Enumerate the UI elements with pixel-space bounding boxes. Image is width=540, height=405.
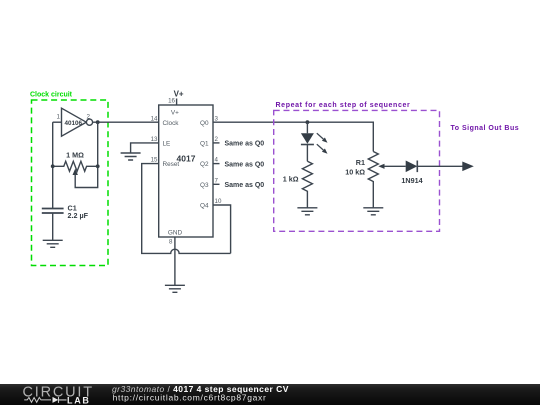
svg-text:8: 8 — [169, 239, 173, 246]
svg-text:V+: V+ — [171, 110, 179, 117]
wire: GND pin to ground — [174, 237, 176, 285]
wiper arrow of R1 — [378, 164, 384, 169]
wire: Q0 output net — [213, 122, 373, 151]
annotation box "Repeat for each step of sequencer" — [274, 102, 440, 231]
diode 1N914 — [401, 161, 422, 186]
svg-text:Reset: Reset — [163, 161, 180, 168]
svg-text:4017: 4017 — [177, 154, 196, 164]
wire: C1 to ground — [52, 213, 54, 240]
node: resistor right junction — [96, 164, 100, 168]
ground (below R1) — [363, 208, 383, 215]
svg-text:Q4: Q4 — [200, 203, 209, 210]
wire: Reset loop to Q4 with hop over GND wire — [142, 164, 231, 254]
svg-text:10 kΩ: 10 kΩ — [345, 168, 365, 177]
node: Q0/LED junction — [306, 120, 310, 124]
wire: diode to signal out bus — [417, 165, 463, 167]
svg-text:V+: V+ — [174, 90, 184, 99]
svg-text:LE: LE — [163, 141, 171, 148]
LED emission arrows — [317, 133, 324, 150]
svg-text:3: 3 — [215, 115, 219, 122]
ground (4017 GND) — [165, 285, 185, 292]
ground (LE) — [121, 153, 141, 160]
svg-text:14: 14 — [151, 115, 158, 122]
svg-text:Q2: Q2 — [200, 161, 209, 168]
inverter 40106 — [57, 108, 93, 136]
svg-text:Same as Q0: Same as Q0 — [225, 182, 265, 189]
svg-text:1: 1 — [57, 113, 61, 120]
svg-text:2.2 µF: 2.2 µF — [68, 211, 89, 220]
wire: feedback vertical — [97, 122, 99, 166]
resistor 1 kOhm — [283, 161, 313, 208]
svg-text:To Signal Out Bus: To Signal Out Bus — [451, 125, 520, 132]
pin stub Q1 — [213, 142, 220, 144]
svg-text:R1: R1 — [356, 158, 365, 167]
svg-text:Clock: Clock — [163, 120, 180, 127]
svg-text:4: 4 — [215, 157, 219, 164]
power net V+ flag — [174, 90, 184, 106]
ground (below C1) — [43, 240, 63, 247]
ground (below 1 kOhm) — [297, 208, 317, 215]
LED — [301, 122, 328, 161]
wire: Q4 down to loop — [213, 205, 231, 253]
node: resistor left junction — [51, 164, 55, 168]
wire: left vertical (input net) — [52, 122, 54, 208]
svg-text:1 MΩ: 1 MΩ — [66, 151, 84, 160]
svg-text:15: 15 — [151, 157, 158, 164]
node: inverter output junction — [96, 120, 100, 124]
svg-text:40106: 40106 — [65, 120, 83, 127]
svg-text:2: 2 — [215, 136, 219, 143]
IC 4017 — [151, 98, 222, 246]
svg-text:Q1: Q1 — [200, 141, 209, 148]
svg-text:Same as Q0: Same as Q0 — [225, 141, 265, 148]
svg-text:Repeat for each step of sequen: Repeat for each step of sequencer — [276, 102, 411, 109]
wire: LE to ground — [131, 143, 159, 153]
pin stub Q3 — [213, 183, 220, 185]
svg-text:10: 10 — [215, 198, 222, 205]
svg-text:2: 2 — [87, 113, 91, 120]
svg-text:Q3: Q3 — [200, 182, 209, 189]
svg-text:http://circuitlab.com/c6rt8cp8: http://circuitlab.com/c6rt8cp87gaxr — [113, 393, 267, 403]
annotation box "Clock circuit" — [30, 92, 108, 266]
svg-text:Same as Q0: Same as Q0 — [225, 161, 265, 168]
footer bar — [0, 384, 540, 405]
wiper arrow of 1 MOhm pot — [73, 169, 78, 175]
svg-text:Clock circuit: Clock circuit — [30, 92, 73, 99]
svg-text:16: 16 — [168, 98, 175, 105]
svg-text:LAB: LAB — [67, 395, 91, 405]
svg-text:Q0: Q0 — [200, 120, 209, 127]
svg-text:7: 7 — [215, 177, 219, 184]
svg-text:1 kΩ: 1 kΩ — [283, 174, 299, 183]
potentiometer R1 10 kOhm — [345, 152, 405, 208]
wire: inverter output to 4017 clock — [93, 121, 159, 123]
svg-text:GND: GND — [168, 230, 183, 237]
resistor 1 MOhm (pot) — [53, 151, 98, 188]
svg-text:1N914: 1N914 — [401, 176, 422, 185]
terminal arrow: to signal out bus — [462, 162, 474, 172]
wire: inverter input stub — [53, 121, 62, 123]
capacitor C1 2.2 uF — [42, 203, 89, 220]
pin stub Q2 — [213, 163, 220, 165]
svg-text:13: 13 — [151, 136, 158, 143]
